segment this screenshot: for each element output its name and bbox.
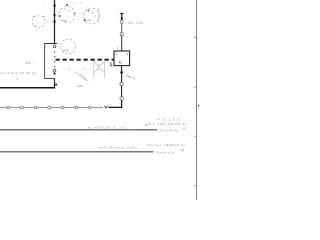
wire: middle segment — [121, 23, 123, 32]
switch E1: terminal bottom — [53, 69, 56, 72]
speck right of edge rule — [198, 105, 199, 106]
junction arrow at harness line — [105, 106, 108, 108]
svg-text:·2·,: ·2·, — [72, 1, 76, 5]
svg-text:+P T +2P+2Q/2P 3]: +P T +2P+2Q/2P 3] — [146, 122, 187, 126]
relay J31: pin stub dotted top — [117, 47, 119, 51]
page edge rule right — [196, 0, 198, 200]
svg-text:ua.: ua. — [34, 24, 38, 28]
wire: relay supply vertical with connectors — [121, 13, 123, 20]
svg-text:1/: 1/ — [80, 1, 83, 5]
wire: output segment 2 — [121, 86, 123, 97]
linkage diagonal mark 1 — [75, 72, 87, 81]
svg-text:ww.: ww. — [63, 19, 68, 23]
tick right of K1 — [124, 18, 126, 19]
wire: output turn left — [109, 106, 123, 108]
specks inside connector X — [98, 64, 99, 65]
annotation arrow to output wire — [127, 76, 132, 78]
svg-text:Sxxx+le.: Sxxx+le. — [157, 150, 176, 154]
svg-text:2: 2 — [69, 67, 71, 71]
svg-text:Sxxxxr LRAF(2 3]: Sxxxxr LRAF(2 3] — [148, 143, 186, 147]
svg-text:w· +20 ±20: 0 . -0 -.: w· +20 ±20: 0 . -0 -. — [88, 126, 129, 130]
svg-text:15: 15 — [181, 148, 185, 152]
connector symbol: right rail — [103, 61, 105, 78]
wire: relay output down — [121, 66, 123, 83]
relay J31: inner pin dots — [116, 54, 117, 55]
switch E1: lower junction dot — [53, 73, 55, 75]
svg-text:.w.: .w. — [35, 29, 38, 32]
switch E1: contact dots — [54, 51, 56, 67]
junction dot on output — [120, 71, 123, 74]
connector symbol: cross X — [94, 62, 104, 73]
motor V3: circle top-right — [84, 8, 100, 24]
svg-text:2.: 2. — [84, 67, 87, 71]
svg-text:KA -: KA - — [26, 61, 35, 65]
track line 2 — [0, 151, 154, 153]
svg-text:1852: 1852 — [77, 84, 84, 88]
wire: V1 stub to feed — [45, 21, 54, 23]
wire: lower segment into relay — [121, 36, 123, 51]
terminal blob — [121, 17, 123, 19]
junction dot C on feed wire — [54, 21, 56, 23]
connector symbol: left rail — [93, 61, 95, 78]
pin mark L left of relay — [111, 62, 113, 66]
wire: faint stub right of V3 — [98, 8, 100, 22]
svg-text:Sxx=Pxle.: Sxx=Pxle. — [160, 128, 181, 132]
svg-text:1H5: 1H5 — [63, 49, 69, 53]
connector circle on output 1 — [120, 82, 123, 85]
connector circle on output 2 — [120, 97, 123, 100]
wire: jog horizontal at top of switch — [44, 43, 57, 45]
wire: switch output down — [54, 79, 56, 89]
motor V2: circle top-middle — [59, 7, 75, 23]
connector square K2 — [120, 33, 123, 36]
svg-text:ku: ku — [119, 60, 123, 64]
switch E1: terminal top — [53, 45, 56, 48]
motor V3: inner marks — [84, 10, 96, 22]
wire: V2 stub to feed — [55, 14, 59, 16]
mechanical linkage: dashed line to relay — [56, 59, 115, 61]
edge tick 2 — [194, 86, 197, 88]
bus wire 31: bold horizontal to left edge — [0, 87, 55, 89]
svg-text:·≈·: ·≈· — [43, 1, 46, 5]
relay J31: box — [114, 51, 130, 66]
junction dot A on feed wire — [54, 5, 56, 7]
motor V1: rim specks — [33, 16, 34, 17]
svg-text:15: 15 — [183, 126, 187, 130]
lamp E2: circle above dashed line — [61, 39, 76, 54]
svg-text:B: B — [133, 77, 135, 81]
edge tick 4 — [194, 185, 197, 187]
wire: jog horizontal at bottom of switch — [44, 78, 54, 80]
wire: main vertical feed from top — [54, 0, 56, 44]
motor V2: inner marks — [59, 4, 75, 22]
svg-text:p=3,2Axx=(ax-1=(3): p=3,2Axx=(ax-1=(3) — [100, 145, 138, 149]
wire: left bypass vertical — [44, 43, 46, 79]
edge tick 1 — [194, 36, 197, 38]
harness line: dash-circle separator — [0, 106, 103, 109]
svg-text:J.°: J.° — [16, 77, 20, 81]
wire: output segment 3 — [121, 100, 123, 108]
linkage diagonal mark 2 — [80, 74, 89, 82]
motor V1: circle top-left — [32, 15, 45, 28]
svg-text:r1t-3 Dv3-t3f T8 1O: r1t-3 Dv3-t3f T8 1O — [1, 71, 37, 75]
track line 1 — [0, 129, 157, 131]
svg-text:a0. 42h: a0. 42h — [129, 21, 144, 25]
svg-text:··: ·· — [151, 0, 153, 4]
terminal tick top — [120, 12, 124, 14]
svg-text:ww: ww — [87, 18, 92, 22]
edge tick 3 — [194, 136, 196, 138]
junction dot B on feed wire — [54, 14, 56, 16]
junction corner dot — [55, 84, 57, 86]
connector circle K1 — [120, 20, 123, 23]
